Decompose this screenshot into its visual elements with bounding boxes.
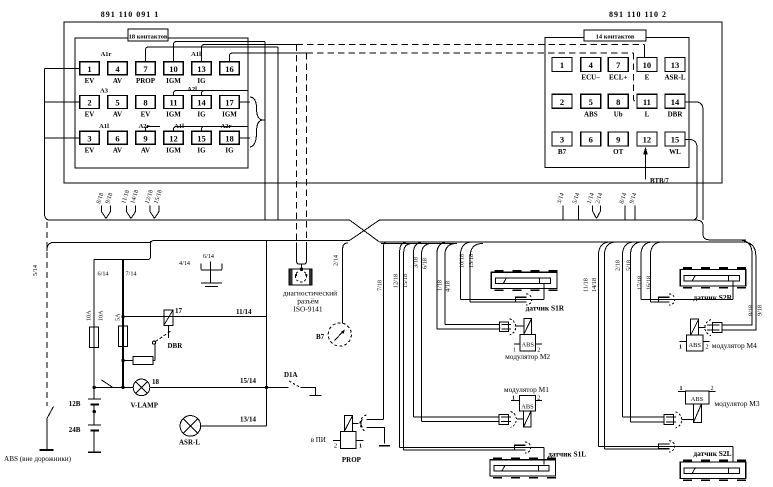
battery terminal bar xyxy=(88,451,101,453)
svg-text:A1l: A1l xyxy=(191,51,201,58)
svg-text:15/18: 15/18 xyxy=(402,274,409,288)
modulator M4 plug xyxy=(713,323,723,333)
svg-text:10/18: 10/18 xyxy=(459,254,466,268)
connector X1 pin grid with numbers and labels xyxy=(80,62,100,75)
svg-text:EV: EV xyxy=(141,111,151,119)
warning lamp 18 V-LAMP xyxy=(133,379,150,396)
svg-text:PROP: PROP xyxy=(136,77,156,85)
modulator M4 ABS box xyxy=(686,335,703,351)
PROP pin 2 lead xyxy=(333,439,340,441)
svg-text:15: 15 xyxy=(671,135,680,145)
sensor S2R connector xyxy=(659,297,670,302)
sensor S1L lead xyxy=(543,448,545,465)
connector X2 14-pin block outline xyxy=(545,38,689,168)
svg-text:3: 3 xyxy=(560,135,564,145)
wire 7/14 vertical xyxy=(122,260,124,388)
svg-text:14 контактов: 14 контактов xyxy=(596,34,635,41)
svg-text:7/18: 7/18 xyxy=(377,280,384,291)
svg-text:IG: IG xyxy=(197,77,206,85)
svg-text:11/14: 11/14 xyxy=(236,308,252,316)
battery 24B plates xyxy=(88,424,101,426)
svg-text:ECU−: ECU− xyxy=(581,73,600,81)
wire pin10 stub xyxy=(174,42,266,62)
svg-text:17: 17 xyxy=(225,98,234,108)
svg-text:ASR-L: ASR-L xyxy=(664,73,685,81)
svg-text:13/14: 13/14 xyxy=(240,415,256,423)
bus crossover X right arm xyxy=(350,220,379,240)
main bus right section xyxy=(379,220,746,240)
relay contact drop xyxy=(154,344,156,361)
ignition switch blade xyxy=(102,380,113,387)
harness stubs 8/18 9/18 11/18 14/18 12/18 15/18 under X1 xyxy=(102,206,107,219)
svg-text:2: 2 xyxy=(87,98,91,108)
modulator M1 plug xyxy=(499,414,509,424)
sensor S2L wire xyxy=(599,445,734,447)
svg-text:2/18: 2/18 xyxy=(615,260,622,271)
wire 11/14 relay line xyxy=(123,316,267,318)
svg-text:IG: IG xyxy=(197,146,206,154)
svg-text:3/18: 3/18 xyxy=(413,257,420,268)
svg-text:10: 10 xyxy=(169,64,178,74)
relay 17 coil xyxy=(164,310,173,326)
node battery top junction xyxy=(93,386,96,389)
svg-text:A3: A3 xyxy=(100,88,109,95)
wire 1/18 to M2 lower xyxy=(437,328,500,330)
svg-text:12/18: 12/18 xyxy=(393,274,400,288)
svg-text:24B: 24B xyxy=(69,426,81,434)
svg-text:6/18: 6/18 xyxy=(422,258,429,269)
svg-text:IG: IG xyxy=(197,111,206,119)
fuse 10A xyxy=(90,327,99,348)
modulator M4 pin leads xyxy=(680,341,687,343)
ABS off-road switch blade xyxy=(47,407,54,419)
wire pin11 stub xyxy=(174,91,248,96)
svg-text:A1l: A1l xyxy=(99,123,109,130)
svg-text:L: L xyxy=(645,110,650,118)
svg-text:14/18: 14/18 xyxy=(591,278,598,292)
svg-text:12: 12 xyxy=(169,133,178,143)
svg-text:13: 13 xyxy=(671,60,680,70)
modulator M4 wire from plug xyxy=(699,327,706,329)
feed drop into box1 xyxy=(94,241,150,260)
resistor on lamp branch xyxy=(133,357,153,365)
svg-text:A1r: A1r xyxy=(101,51,112,58)
svg-text:датчик S1L: датчик S1L xyxy=(548,450,586,459)
wire 7/18 drop to PROP xyxy=(367,419,384,421)
svg-text:IGM: IGM xyxy=(166,111,181,119)
svg-text:PROP: PROP xyxy=(342,456,362,464)
modulator M2 plug xyxy=(499,322,508,331)
wire 2/14 to speed signal B7 xyxy=(343,243,348,323)
wire pin17 to brace xyxy=(239,101,250,103)
sensor S2R lead down xyxy=(732,281,734,300)
svg-text:1/18: 1/18 xyxy=(437,280,444,291)
svg-text:9: 9 xyxy=(616,135,620,145)
svg-text:EV: EV xyxy=(85,77,95,85)
wire pin1 to left bus xyxy=(45,67,80,69)
svg-text:18: 18 xyxy=(152,378,160,386)
relay DBR contact xyxy=(152,341,155,344)
PROP solenoid xyxy=(344,416,352,432)
relay 17 armature lead xyxy=(168,325,170,338)
wire pin2 to left bus xyxy=(45,101,80,103)
svg-text:модулятор М1: модулятор М1 xyxy=(504,385,549,394)
sensor S2R wire to risers xyxy=(641,299,733,301)
modulator M2 ABS box xyxy=(520,334,535,351)
bus crossover X left arm xyxy=(350,220,379,242)
brace joining pins 17 and 18 xyxy=(250,97,262,147)
svg-text:ASR-L: ASR-L xyxy=(179,439,200,447)
svg-text:1: 1 xyxy=(359,443,362,450)
svg-text:5/18: 5/18 xyxy=(626,260,633,271)
svg-text:12: 12 xyxy=(643,135,652,145)
PROP lower wire to ground xyxy=(367,428,385,444)
svg-text:EV: EV xyxy=(85,111,95,119)
modulator M3 wire into solenoid xyxy=(682,419,693,421)
svg-text:5: 5 xyxy=(115,98,119,108)
left bus vertical wire xyxy=(45,68,51,220)
svg-text:10: 10 xyxy=(643,60,652,70)
svg-text:2/14: 2/14 xyxy=(333,255,340,266)
svg-text:AV: AV xyxy=(141,146,150,154)
connector X1 title box xyxy=(128,29,168,41)
svg-text:ECL+: ECL+ xyxy=(609,73,627,81)
fuse 5A xyxy=(119,326,128,346)
box2 vertical feed wire xyxy=(266,240,268,426)
svg-text:DBR: DBR xyxy=(668,110,684,118)
svg-text:891 110 110 2: 891 110 110 2 xyxy=(609,10,667,19)
wire pin7 stub xyxy=(146,47,279,62)
svg-text:2: 2 xyxy=(334,443,337,450)
svg-text:датчик S2L: датчик S2L xyxy=(693,449,731,458)
wire pin15 stub xyxy=(202,127,248,132)
svg-text:IG: IG xyxy=(225,146,234,154)
node 7/14 bottom junction xyxy=(121,386,124,389)
wire resistor line xyxy=(123,360,133,362)
wire 13/14 ASR lamp xyxy=(201,425,267,427)
svg-text:AV: AV xyxy=(113,146,122,154)
svg-text:E: E xyxy=(645,73,650,81)
svg-text:11: 11 xyxy=(169,98,177,108)
svg-text:6: 6 xyxy=(589,135,593,145)
svg-text:18: 18 xyxy=(225,133,234,143)
ground bar D1A xyxy=(309,395,321,397)
relay DBR switch blade dashed xyxy=(156,331,172,342)
svg-text:AV: AV xyxy=(113,77,122,85)
svg-text:Ub: Ub xyxy=(614,110,623,118)
sensor S1L body xyxy=(490,460,556,476)
PROP pin 1 lead xyxy=(356,439,363,441)
svg-text:9/18: 9/18 xyxy=(757,305,764,316)
connector X1 18-pin block outline xyxy=(75,38,248,168)
wire fan from crossover to left riser group xyxy=(381,242,457,244)
wire pin18 to brace xyxy=(239,137,250,139)
svg-text:AV: AV xyxy=(113,111,122,119)
modulator M1 ABS box xyxy=(520,396,536,412)
svg-text:17: 17 xyxy=(175,307,183,315)
modulator M4 solenoid xyxy=(691,319,699,335)
sensor S2L lead xyxy=(732,446,734,462)
svg-text:5: 5 xyxy=(589,97,593,107)
svg-text:ABS: ABS xyxy=(521,342,534,349)
modulator M3 pin leads xyxy=(678,391,686,393)
ABS off-road switch lower lead xyxy=(46,419,48,450)
svg-text:ISO-9141: ISO-9141 xyxy=(293,305,322,314)
svg-text:2: 2 xyxy=(560,97,564,107)
box1 lid xyxy=(47,240,267,251)
sensor S1L wire xyxy=(400,447,545,449)
svg-text:OT: OT xyxy=(613,148,623,156)
svg-text:1: 1 xyxy=(87,64,91,74)
svg-text:15/14: 15/14 xyxy=(240,377,256,385)
lamp supply line xyxy=(94,386,266,388)
svg-text:WL: WL xyxy=(669,148,681,156)
sensor S2R body xyxy=(680,270,746,286)
svg-text:IGM: IGM xyxy=(166,77,181,85)
svg-text:D1A: D1A xyxy=(284,371,298,379)
svg-text:10A: 10A xyxy=(98,310,105,321)
switch D1A output xyxy=(301,387,316,395)
svg-text:6/14: 6/14 xyxy=(98,271,109,278)
diagnostic connector ISO-9141 body xyxy=(289,269,312,285)
ground bar PROP xyxy=(379,445,390,447)
wire from pin15 WL xyxy=(685,140,698,221)
wire drop W7 to bus xyxy=(277,47,279,220)
sensor S1R wire to risers xyxy=(461,299,545,301)
lamp ASR-L xyxy=(180,416,201,437)
K-line dashed horizontal to pin10 xyxy=(297,44,645,46)
svg-text:16: 16 xyxy=(225,64,234,74)
svg-text:модулятор М2: модулятор М2 xyxy=(505,352,550,361)
ground terminal bar ABS switch xyxy=(40,449,54,451)
diagnostic connector hooks xyxy=(297,243,307,265)
svg-text:модулятор М4: модулятор М4 xyxy=(712,341,757,350)
svg-text:ABS (вне дорожники): ABS (вне дорожники) xyxy=(4,455,72,463)
modulator M1 wire into solenoid xyxy=(517,418,523,420)
connector X2 title box xyxy=(584,30,646,41)
L-line drop into pin11 xyxy=(634,53,638,102)
K-line drop into pin10 xyxy=(644,45,646,58)
sensor S2L body xyxy=(680,462,746,478)
arrow into pin12 xyxy=(645,149,647,180)
L-line dashed vertical to diagnostic connector xyxy=(306,53,308,243)
svg-text:17/18: 17/18 xyxy=(637,276,644,290)
wire pin3 to left bus xyxy=(45,137,80,139)
svg-text:5/14: 5/14 xyxy=(32,265,39,276)
svg-text:11: 11 xyxy=(643,97,651,107)
svg-text:ABS: ABS xyxy=(688,342,701,349)
gauge B7 dashed circle xyxy=(328,323,351,346)
modulator M2 solenoid xyxy=(524,318,532,334)
svg-text:11/18: 11/18 xyxy=(583,278,590,292)
wire 5/14 dashed drop xyxy=(46,222,48,406)
svg-text:A2l: A2l xyxy=(187,86,197,93)
node 7/14-relay junction xyxy=(121,315,124,318)
wire 4/18 to M2 xyxy=(445,324,500,326)
svg-text:V-LAMP: V-LAMP xyxy=(131,402,159,410)
wire pin14 stub xyxy=(202,91,248,96)
wire drop W10 to bus xyxy=(264,42,266,221)
battery wire segment xyxy=(93,387,95,399)
modulator M1 pin leads xyxy=(511,400,519,402)
sensor S2L connector xyxy=(659,444,670,449)
svg-text:датчик S2R: датчик S2R xyxy=(693,293,732,302)
wire from pin14 DBR xyxy=(685,102,704,220)
sensor S1R connector xyxy=(516,297,527,302)
svg-text:ABS: ABS xyxy=(521,404,534,411)
wire pin16 stub xyxy=(230,53,307,62)
svg-text:ABS: ABS xyxy=(584,110,598,118)
svg-text:10A: 10A xyxy=(86,310,93,321)
battery negative lead xyxy=(93,431,95,453)
svg-text:6: 6 xyxy=(115,133,119,143)
svg-text:4/14: 4/14 xyxy=(179,260,190,267)
svg-text:4: 4 xyxy=(589,60,594,70)
svg-text:IGM: IGM xyxy=(222,111,237,119)
ECU outer box xyxy=(64,22,722,183)
sensor S1R body xyxy=(491,272,557,288)
svg-text:ВТВ/7: ВТВ/7 xyxy=(650,178,669,185)
wire 6/14 vertical xyxy=(93,260,95,388)
svg-text:5A: 5A xyxy=(115,313,122,321)
modulator M2 wire into solenoid xyxy=(516,325,524,327)
svg-text:в ПИ: в ПИ xyxy=(311,436,326,444)
modulator M3 wires left xyxy=(623,416,664,418)
connector X2 pin grid with numbers and labels xyxy=(552,57,572,71)
wire fan to right riser group xyxy=(709,240,752,325)
PROP connector arcs xyxy=(360,415,366,432)
switch D1A blade dashed xyxy=(289,381,301,388)
wire pin12 stub xyxy=(174,127,248,132)
L-line dashed horizontal xyxy=(307,52,634,54)
svg-text:8: 8 xyxy=(616,97,620,107)
node 15/14 junction xyxy=(265,386,268,389)
wire 6/18 to M1 lower xyxy=(422,421,499,423)
PROP valve body xyxy=(340,432,356,449)
battery 12B plates xyxy=(88,398,101,400)
svg-text:6/14: 6/14 xyxy=(203,253,214,260)
svg-text:14: 14 xyxy=(197,98,206,108)
svg-text:IGM: IGM xyxy=(166,146,181,154)
wire pin13 stub xyxy=(202,45,297,62)
svg-text:модулятор М3: модулятор М3 xyxy=(715,399,760,408)
svg-text:9: 9 xyxy=(143,133,147,143)
modulator M3 solenoid xyxy=(693,404,701,422)
main bus left-to-right xyxy=(51,219,350,221)
sensor S1R lead down xyxy=(543,284,545,300)
svg-text:13/18: 13/18 xyxy=(468,254,475,268)
svg-text:12B: 12B xyxy=(69,400,81,408)
node resistor junction xyxy=(121,359,124,362)
node diagnostic pin xyxy=(300,268,303,271)
svg-text:15: 15 xyxy=(197,133,206,143)
svg-text:7: 7 xyxy=(616,60,621,70)
wire 3/18 to M1 xyxy=(414,416,499,418)
svg-text:18 контактов: 18 контактов xyxy=(129,34,168,41)
svg-text:EV: EV xyxy=(85,146,95,154)
svg-text:7/14: 7/14 xyxy=(126,271,137,278)
svg-text:8: 8 xyxy=(143,98,147,108)
svg-text:1: 1 xyxy=(679,345,682,351)
svg-text:4/18: 4/18 xyxy=(445,281,452,292)
svg-text:ABS: ABS xyxy=(691,396,704,403)
K-line dashed vertical to diagnostic connector xyxy=(296,45,298,243)
svg-text:13: 13 xyxy=(197,64,206,74)
svg-text:B7: B7 xyxy=(558,148,567,156)
modulator M1 solenoid xyxy=(523,411,531,427)
modulator M3 ABS box xyxy=(686,391,710,404)
svg-text:8/18: 8/18 xyxy=(748,305,755,316)
modulator M3 plug xyxy=(664,415,674,425)
svg-text:2: 2 xyxy=(706,345,709,351)
harness stubs 3/14 5/14 1/14 2/14 8/14 9/14 under X2 xyxy=(562,206,564,220)
svg-text:1: 1 xyxy=(560,60,564,70)
node between batteries xyxy=(93,410,96,413)
box2 top edge xyxy=(267,239,350,241)
wire pin9 stub xyxy=(146,127,161,132)
svg-text:DBR: DBR xyxy=(168,342,184,350)
svg-text:14: 14 xyxy=(671,97,680,107)
svg-text:датчик S1R: датчик S1R xyxy=(526,304,565,313)
svg-text:3: 3 xyxy=(87,133,91,143)
wire 15/14 to switch D1A xyxy=(267,386,289,388)
modulator M2 pin leads xyxy=(514,343,520,345)
svg-text:B7: B7 xyxy=(316,333,325,341)
svg-text:891 110 091 1: 891 110 091 1 xyxy=(101,10,160,19)
svg-text:16/18: 16/18 xyxy=(646,276,653,290)
sensor S1L connector xyxy=(515,445,526,450)
